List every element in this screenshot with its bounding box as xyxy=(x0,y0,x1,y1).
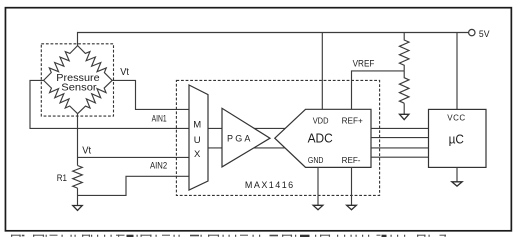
mux U1 xyxy=(189,85,208,190)
svg-text:VREF: VREF xyxy=(353,59,375,69)
svg-text:ADC: ADC xyxy=(308,132,333,146)
wire: R1 bottom to ground xyxy=(77,188,79,205)
svg-text:REF-: REF- xyxy=(342,155,361,165)
bridge resistor arm bottom-right xyxy=(78,80,113,113)
bridge resistor arm top-right xyxy=(78,46,113,81)
wire: MUX to PGA to ADC (lower) xyxy=(208,147,290,149)
wire: data bus line 2 xyxy=(371,137,429,139)
wire: VCC drop from rail to uC xyxy=(456,33,458,110)
wire: ADC GND to ground xyxy=(317,167,319,205)
node 5V terminal circle xyxy=(469,29,475,35)
svg-text:5V: 5V xyxy=(479,29,490,40)
wire: divider to ground stem xyxy=(403,103,405,114)
wire: MUX to PGA to ADC (upper) xyxy=(208,127,290,129)
resistor R1 xyxy=(73,166,83,189)
wire: VDD drop from rail to ADC xyxy=(321,33,323,110)
ground below divider xyxy=(400,114,409,119)
svg-text:U: U xyxy=(194,135,201,146)
wire: data bus line 4 xyxy=(371,156,429,158)
wire: Vt from bridge right to MUX xyxy=(112,80,189,109)
svg-text:Sensor: Sensor xyxy=(61,83,97,94)
ground below R1 xyxy=(73,206,83,211)
svg-text:AIN1: AIN1 xyxy=(152,114,167,124)
svg-text:PGA: PGA xyxy=(227,134,250,144)
svg-text:M: M xyxy=(193,119,201,130)
bridge resistor arm top-left xyxy=(44,46,78,81)
svg-text:REF+: REF+ xyxy=(342,115,363,125)
svg-text:GND: GND xyxy=(308,155,324,165)
svg-text:R1: R1 xyxy=(57,173,67,183)
wire: VREF tap xyxy=(352,71,405,109)
svg-text:MAX1416: MAX1416 xyxy=(245,180,293,190)
dashed box: pressure sensor xyxy=(41,44,113,116)
svg-text:Vt: Vt xyxy=(120,67,129,78)
ADC block xyxy=(275,109,371,167)
wire: data bus line 1 xyxy=(371,127,429,129)
resistor divider upper R xyxy=(399,33,409,71)
svg-text:X: X xyxy=(194,149,201,160)
bridge resistor arm bottom-left xyxy=(44,80,78,113)
wire: uC to ground xyxy=(456,167,458,181)
svg-text:AIN2: AIN2 xyxy=(150,161,167,171)
wire: data bus line 3 xyxy=(371,147,429,149)
ground below ADC REF- xyxy=(347,205,357,209)
ground below uC xyxy=(452,182,462,186)
op-amp PGA xyxy=(222,108,270,167)
microcontroller uC xyxy=(429,109,487,167)
svg-text:µC: µC xyxy=(449,131,464,146)
wire: 5V top rail from bridge top xyxy=(78,33,469,46)
svg-text:VCC: VCC xyxy=(447,113,465,122)
wire: bridge left to AIN1 xyxy=(30,80,189,128)
wire: Vt tap to MUX xyxy=(78,156,190,158)
wire: R1 bottom jog to AIN2 xyxy=(78,176,190,195)
ground below ADC GND xyxy=(313,205,323,209)
wire: bridge bottom down to R1 xyxy=(77,114,79,166)
caption (Japanese text cut off at bottom, drawn as glyph-top marks) xyxy=(11,235,446,237)
wire: ADC REF- to ground xyxy=(351,167,353,205)
svg-text:VDD: VDD xyxy=(313,115,329,125)
svg-text:Vt: Vt xyxy=(82,146,91,157)
resistor divider lower R xyxy=(399,71,409,103)
dashed box: MAX1416 xyxy=(176,80,379,195)
